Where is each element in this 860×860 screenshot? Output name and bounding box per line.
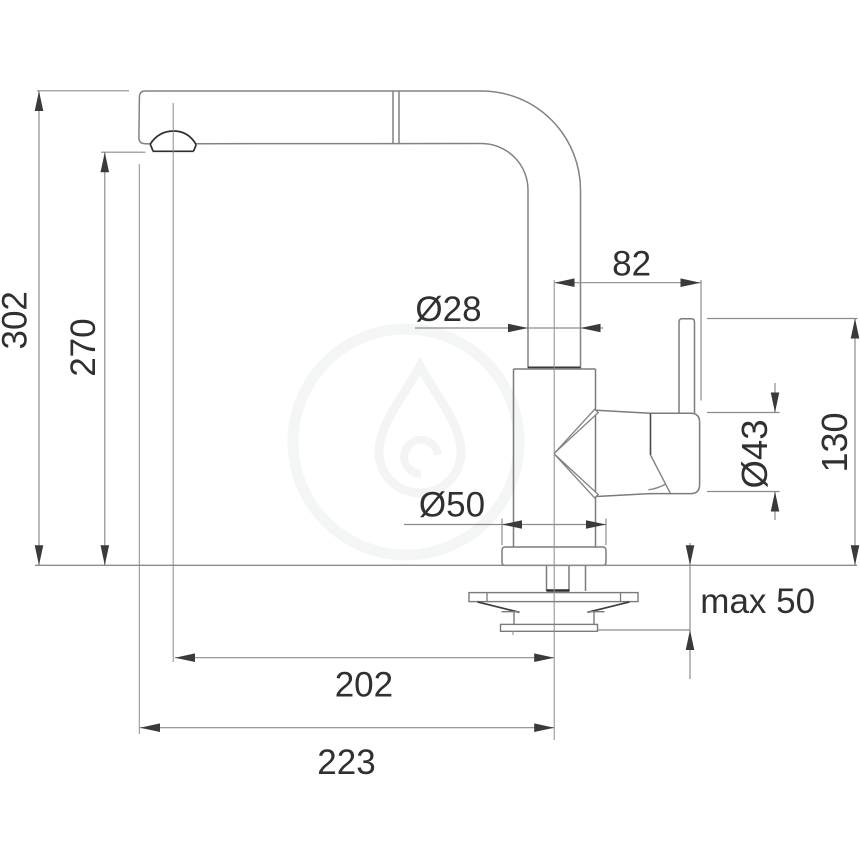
body column	[514, 369, 596, 547]
watermark droplet	[379, 366, 461, 493]
dim line 82	[555, 282, 701, 284]
pull-out head wedge upper seam	[554, 409, 598, 453]
ext line 270 top	[101, 151, 146, 153]
washer bottom reference line	[598, 629, 691, 631]
washer top plate	[469, 593, 638, 602]
dim line d28	[415, 327, 603, 329]
ext line spout center	[172, 103, 174, 662]
svg-text:270: 270	[64, 318, 103, 376]
svg-text:Ø43: Ø43	[734, 420, 775, 489]
ext line valve bottom	[707, 491, 780, 493]
spout left end cap	[139, 91, 151, 144]
ext line handle right	[700, 280, 702, 401]
washer cone diagonals	[478, 602, 630, 612]
dim line d43	[774, 383, 776, 520]
valve collar diagonal	[651, 455, 671, 494]
ext line lever top	[707, 318, 858, 320]
shank dark bottom	[547, 589, 570, 591]
spout outline: top edge, outer bend, right edge of riser	[145, 91, 581, 368]
shank	[547, 566, 586, 592]
washer plate end caps	[487, 593, 621, 602]
base flange	[502, 547, 606, 565]
valve body	[597, 410, 700, 496]
dim line 223	[140, 727, 554, 729]
svg-text:302: 302	[0, 291, 34, 349]
ext line 302 top	[37, 90, 129, 92]
watermark circle	[293, 329, 519, 555]
valve seam	[650, 413, 652, 455]
washer bottom lip	[501, 624, 598, 631]
ext line spout left	[138, 164, 140, 734]
svg-text:max 50: max 50	[700, 582, 815, 621]
svg-text:223: 223	[317, 743, 375, 782]
washer mid lines	[502, 611, 605, 613]
dim line max50	[689, 543, 691, 679]
dim line 270	[104, 152, 106, 565]
washer neck sides	[514, 612, 594, 625]
ext line valve top	[707, 412, 780, 414]
svg-text:Ø50: Ø50	[419, 486, 485, 525]
svg-text:202: 202	[335, 666, 393, 705]
spout joint lines	[393, 92, 399, 144]
centerline	[553, 280, 555, 740]
aerator dome	[150, 131, 196, 151]
countertop reference line	[35, 564, 857, 566]
svg-text:130: 130	[814, 412, 855, 472]
dim line d50	[404, 524, 606, 526]
dim line 130	[854, 319, 856, 566]
pull-out head wedge lower seam	[554, 454, 598, 498]
dim line 202	[175, 657, 554, 659]
ext lines flange	[502, 519, 606, 546]
valve collar arc	[649, 484, 666, 490]
svg-text:82: 82	[612, 244, 651, 283]
handle lever	[679, 319, 695, 414]
washer tick	[512, 631, 514, 635]
dim line 302	[38, 91, 40, 565]
riser inner edge, inner bend, spout bottom edge	[197, 144, 529, 369]
svg-text:Ø28: Ø28	[415, 290, 481, 329]
tube end dark segment	[528, 366, 581, 368]
